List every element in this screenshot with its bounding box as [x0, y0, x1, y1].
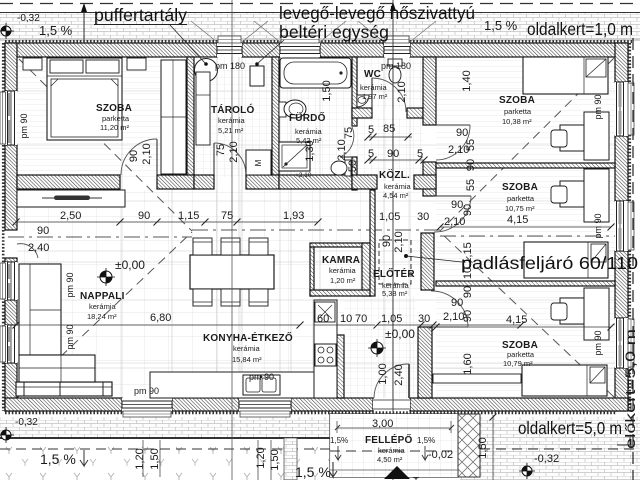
floor ceramic furdo: [279, 57, 352, 177]
interior wall tarolo/furdo: [272, 57, 279, 177]
kitchen counter east: [314, 300, 337, 398]
svg-text:pm 90: pm 90: [19, 113, 29, 138]
kamra wall top: [310, 243, 371, 247]
nightstand left: [23, 58, 42, 70]
wall right segment 4: [615, 368, 628, 411]
svg-text:1,20: 1,20: [134, 448, 146, 469]
floor ceramic tarolo: [194, 57, 272, 177]
svg-text:11,20 m²: 11,20 m²: [100, 123, 130, 132]
svg-text:KÖZL.: KÖZL.: [379, 168, 410, 181]
floor ceramic wc: [357, 57, 423, 108]
interior wall szoba1/tarolo: [187, 57, 194, 177]
svg-text:1,5%: 1,5%: [417, 436, 435, 445]
svg-text:+2,10: +2,10: [295, 172, 312, 179]
svg-text:SZOBA: SZOBA: [502, 182, 538, 193]
svg-text:-0,32: -0,32: [15, 417, 38, 428]
svg-text:oldalkert=5,0 m: oldalkert=5,0 m: [518, 418, 622, 438]
svg-text:60: 60: [317, 313, 329, 325]
svg-text:oldalkert=1,0 m: oldalkert=1,0 m: [527, 19, 633, 39]
wall tarolo bottom left: [194, 175, 214, 189]
svg-text:2,10: 2,10: [228, 141, 240, 162]
desk return szoba r1: [584, 112, 609, 160]
svg-text:pm 90: pm 90: [65, 272, 75, 297]
svg-text:pm 90: pm 90: [65, 324, 75, 349]
window szoba r3 pm90: [615, 318, 628, 368]
interior wall wc-kozl/szoba r1 upper: [423, 57, 436, 125]
svg-text:90: 90: [462, 286, 474, 298]
svg-text:18,24 m²: 18,24 m²: [87, 312, 117, 321]
survey marker nappali ±0,00: [100, 271, 112, 283]
wall eloter west: [370, 190, 375, 296]
door szoba r1 leaf: [436, 124, 470, 126]
svg-text:6,80: 6,80: [150, 312, 171, 324]
terrain dashed level line: [0, 448, 640, 450]
svg-text:pm 90: pm 90: [593, 213, 603, 238]
roof hip diagonal top-right: [440, 58, 614, 231]
svg-text:padlásfeljáró 60/110: padlásfeljáró 60/110: [461, 253, 638, 273]
window tarolo pm180: [217, 43, 242, 57]
survey marker eloter: [371, 342, 383, 354]
front door threshold: [373, 399, 410, 410]
svg-text:parketta: parketta: [102, 114, 130, 123]
wall top segment 4: [410, 43, 628, 57]
svg-text:10,75 m²: 10,75 m²: [505, 204, 535, 213]
site walkway top band: [0, 12, 640, 40]
toilet furdo: [345, 160, 351, 176]
fellepo porch outline: [330, 414, 458, 477]
wall right segment 3: [615, 251, 628, 318]
svg-text:70: 70: [355, 313, 367, 325]
wall tarolo bottom right: [246, 175, 279, 189]
svg-text:pm 90: pm 90: [249, 372, 274, 382]
level dashed line across porch: [330, 450, 458, 452]
svg-text:1,00: 1,00: [377, 363, 389, 384]
svg-text:90: 90: [387, 148, 399, 160]
svg-text:parketta: parketta: [504, 107, 532, 116]
window szoba1 pm90: [5, 91, 17, 145]
svg-text:1,50: 1,50: [321, 80, 333, 101]
insulation dotted strip left: [2, 43, 5, 411]
wall kozl bottom right corner: [414, 175, 436, 189]
svg-text:KONYHA-ÉTKEZŐ: KONYHA-ÉTKEZŐ: [203, 331, 293, 344]
shower furdo: [279, 142, 310, 171]
survey marker top left: [1, 26, 11, 36]
bed szoba r3: [522, 365, 607, 396]
svg-text:4,15: 4,15: [507, 214, 528, 226]
wall szoba1-door east stub: [157, 175, 194, 189]
door szoba r1 arc: [436, 125, 470, 160]
sideboard nappali: [17, 190, 125, 207]
svg-text:90: 90: [138, 210, 150, 222]
wall right segment 2: [615, 136, 628, 201]
svg-text:KAMRA: KAMRA: [322, 255, 360, 266]
svg-text:1,40: 1,40: [461, 70, 473, 91]
svg-text:M: M: [254, 159, 263, 166]
wall bottom segment 4: [410, 398, 628, 411]
door tarolo leaf: [213, 143, 215, 175]
svg-text:FELLÉPŐ: FELLÉPŐ: [365, 433, 413, 446]
section line A-A vertical: [392, 0, 394, 480]
door wc arc: [372, 78, 406, 112]
window furdo pm180: [280, 43, 320, 57]
brick path column: [284, 438, 297, 480]
svg-text:beltéri egység: beltéri egység: [279, 22, 389, 42]
svg-text:15,84 m²: 15,84 m²: [232, 355, 262, 364]
svg-text:1,5 %: 1,5 %: [484, 18, 518, 33]
wall left segment 5: [5, 363, 17, 411]
interior wall furdo/wc upper: [352, 57, 357, 126]
desk return szoba r3: [584, 288, 609, 340]
floor parquet szoba1: [17, 57, 187, 177]
dining chairs bottom: [193, 289, 212, 306]
svg-text:4,15: 4,15: [506, 314, 527, 326]
wall szoba r1/r2: [436, 163, 615, 168]
survey marker bottom left: [1, 430, 11, 440]
property line right dashed: [632, 38, 634, 480]
svg-text:2,10: 2,10: [141, 143, 153, 164]
svg-text:10,79 m²: 10,79 m²: [503, 359, 533, 368]
wall right segment 1: [615, 43, 628, 82]
svg-text:3,00: 3,00: [372, 418, 393, 430]
svg-text:1,50: 1,50: [477, 437, 489, 458]
wardrobe szoba1: [161, 60, 186, 174]
kamra wall bottom: [310, 290, 371, 296]
svg-text:1,5 %: 1,5 %: [40, 451, 76, 467]
svg-text:-0,32: -0,32: [534, 453, 559, 465]
svg-text:1,50: 1,50: [149, 448, 161, 469]
svg-text:2,40: 2,40: [393, 364, 405, 385]
svg-text:85: 85: [383, 123, 395, 135]
door szoba r2 leaf: [434, 195, 471, 197]
slope arrow top: [83, 4, 85, 40]
svg-text:2,10: 2,10: [336, 139, 348, 160]
fridge: [315, 302, 335, 322]
porch dim 3,00 line: [337, 427, 451, 429]
svg-text:SZOBA: SZOBA: [96, 103, 132, 114]
wall top segment 1: [5, 43, 217, 57]
wall left segment 3: [5, 258, 17, 262]
dim wc door 5 85: [368, 136, 412, 138]
svg-text:90: 90: [381, 235, 393, 247]
door szoba1 arc: [121, 139, 157, 175]
svg-text:TÁROLÓ: TÁROLÓ: [211, 103, 254, 116]
dim 6,80 row: [16, 324, 300, 326]
wall kozl bottom left: [352, 175, 377, 189]
svg-text:10,38 m²: 10,38 m²: [502, 117, 532, 126]
svg-text:1,60: 1,60: [462, 353, 474, 374]
svg-text:kerámia: kerámia: [329, 266, 357, 275]
svg-text:90: 90: [456, 127, 468, 139]
heat pump indoor unit: [250, 66, 264, 86]
floor ceramic nappali konyha: [17, 190, 420, 398]
wall left segment 2: [5, 145, 17, 230]
svg-text:puffertartály: puffertartály: [94, 5, 187, 25]
wall bottom segment 2: [172, 398, 239, 411]
svg-text:1,97 m²: 1,97 m²: [362, 92, 388, 101]
svg-text:kerámia: kerámia: [89, 302, 117, 311]
svg-text:2,10: 2,10: [448, 144, 469, 156]
svg-text:30: 30: [417, 211, 429, 223]
bed szoba r2: [524, 242, 608, 278]
svg-text:2,10: 2,10: [393, 231, 405, 252]
roof hip diagonal bottom-left: [17, 232, 192, 398]
entrance level triangle: [384, 466, 410, 479]
porch step edge line: [330, 469, 458, 471]
door szoba r3 arc: [431, 291, 468, 327]
tarolo shelf: [196, 72, 210, 145]
nappali south glazing frame: [16, 382, 112, 396]
floor ceramic eloter: [344, 296, 417, 398]
dining chairs top: [193, 238, 212, 255]
svg-text:5: 5: [417, 148, 423, 160]
door szoba r3 leaf: [431, 326, 468, 328]
outer sills top windows: [218, 36, 241, 43]
svg-text:pm 90: pm 90: [593, 330, 603, 355]
porch lattice strip: [458, 414, 480, 477]
wall bottom segment 1: [5, 398, 122, 411]
terrain grass bottom left: [0, 440, 332, 480]
svg-text:1,5 %: 1,5 %: [295, 464, 331, 480]
interior wall kozl/szoba r1 lower: [423, 162, 436, 196]
svg-text:1,05: 1,05: [379, 211, 400, 223]
desk return szoba r2: [584, 169, 609, 222]
desk szoba r3: [560, 298, 584, 324]
svg-text:kerámia: kerámia: [233, 344, 261, 353]
kitchen sink: [243, 375, 280, 395]
svg-text:előkert=5,0 m: előkert=5,0 m: [623, 329, 638, 449]
leader puffertartaly: [170, 25, 205, 63]
svg-text:SZOBA: SZOBA: [499, 95, 535, 106]
svg-text:2,50: 2,50: [60, 210, 81, 222]
window nappali 2 pm90: [5, 325, 17, 363]
insulation dotted strip right: [628, 43, 631, 411]
door tarolo arc: [214, 143, 246, 175]
svg-text:parketta: parketta: [507, 194, 535, 203]
insulation dotted strip bottom: [5, 411, 616, 414]
svg-text:±0,00: ±0,00: [115, 258, 145, 272]
svg-text:1,20 m²: 1,20 m²: [330, 276, 356, 285]
stove: [315, 344, 336, 366]
svg-text:levegő-levegő hőszivattyú: levegő-levegő hőszivattyú: [279, 3, 475, 23]
padlasfeljaro dashed hatch rect: [379, 240, 411, 284]
bed szoba1: [47, 58, 122, 140]
floor ceramic kozl: [357, 118, 423, 192]
construction extension lines: [17, 57, 615, 398]
bed szoba r1: [523, 57, 608, 94]
wall left segment 4: [5, 300, 17, 325]
front door arc: [374, 364, 409, 398]
svg-text:pm 90: pm 90: [134, 386, 159, 396]
svg-text:90: 90: [462, 310, 474, 322]
bathtub furdo: [280, 58, 351, 88]
property line top: [0, 3, 640, 5]
wall bottom segment 3: [291, 398, 373, 411]
svg-text:4,54 m²: 4,54 m²: [383, 191, 409, 200]
sofa nappali: [19, 264, 61, 355]
washing machine: [246, 150, 271, 175]
door nappali west arc: [17, 244, 38, 258]
svg-text:5,21 m²: 5,21 m²: [218, 126, 244, 135]
svg-text:75: 75: [343, 127, 355, 139]
svg-text:-0,32: -0,32: [17, 13, 40, 24]
svg-text:4,50 m²: 4,50 m²: [377, 455, 403, 464]
svg-text:50: 50: [347, 160, 359, 172]
wall top segment 2: [242, 43, 280, 57]
kamra wall left: [310, 247, 314, 296]
puffer tank circle tarolo: [195, 59, 218, 82]
site walkway bottom band: [0, 417, 640, 438]
outer sills right windows: [628, 83, 634, 135]
svg-text:parketta: parketta: [507, 350, 535, 359]
insulation dotted strip top: [5, 40, 632, 43]
svg-text:2,10: 2,10: [396, 81, 408, 102]
wall wc bottom right stub: [407, 108, 423, 118]
svg-text:kerámia: kerámia: [384, 182, 412, 191]
section line B-B vertical: [231, 0, 233, 480]
svg-text:55: 55: [465, 179, 477, 191]
kitchen counter south: [150, 372, 337, 398]
svg-text:1,5 %: 1,5 %: [39, 23, 73, 38]
window szoba r2 pm90: [615, 201, 628, 251]
window szoba r1 pm90: [615, 82, 628, 136]
wall left segment 1: [5, 43, 17, 91]
interior wall eloter/szoba r2: [421, 233, 434, 290]
svg-text:1,93: 1,93: [283, 210, 304, 222]
svg-text:pm 180: pm 180: [381, 61, 411, 71]
svg-text:NAPPALI: NAPPALI: [80, 291, 125, 302]
dim row eloter 1,05 30 2,10: [377, 324, 521, 326]
interior wall furdo/kozl lower: [352, 157, 357, 190]
toilet wc: [388, 59, 402, 66]
svg-text:90: 90: [37, 225, 49, 237]
corner basin wc: [357, 95, 369, 107]
door furdo leaf: [340, 156, 352, 158]
svg-text:kerámia: kerámia: [378, 446, 406, 455]
front door leaf: [408, 364, 410, 398]
nightstand right: [127, 58, 146, 70]
cabinet szoba r3: [433, 374, 521, 383]
svg-text:2,40: 2,40: [28, 242, 49, 254]
wall konyha/eloter: [337, 335, 344, 398]
door furdo arc: [340, 127, 354, 157]
survey marker bottom right: [522, 466, 532, 476]
roof hip diagonal top-left: [19, 59, 192, 231]
window terrace door nappali: [122, 398, 172, 411]
svg-text:10: 10: [340, 313, 352, 325]
svg-text:90: 90: [462, 204, 474, 216]
svg-text:1,5%: 1,5%: [330, 436, 348, 445]
floor parquet szoba r3: [436, 286, 615, 398]
svg-text:2,10: 2,10: [444, 216, 465, 228]
wall wc bottom left stub: [352, 108, 372, 118]
svg-text:kerámia: kerámia: [295, 127, 323, 136]
svg-text:kerámia: kerámia: [360, 83, 388, 92]
roof ridge dash-dot line: [192, 229, 440, 231]
section dash-dot line right: [440, 235, 632, 237]
wall szoba r2/r3: [436, 281, 615, 286]
dim kozl 5 90 5: [368, 159, 424, 161]
svg-text:30: 30: [418, 313, 430, 325]
door wc leaf: [371, 78, 373, 112]
desk szoba r1: [560, 125, 584, 151]
leader beltéri egység: [258, 40, 284, 63]
roof hip diagonal bottom-right: [440, 232, 614, 397]
wall szoba1/nappali: [17, 175, 120, 189]
dim 60 10 70 kamra: [314, 324, 375, 326]
svg-text:-0,02: -0,02: [428, 449, 453, 461]
svg-text:90: 90: [128, 150, 140, 162]
svg-text:ELŐTÉR: ELŐTÉR: [373, 267, 415, 280]
outer sills left windows: [0, 92, 6, 144]
section dash-dot line left: [8, 236, 192, 238]
outer sills bottom windows: [123, 411, 171, 417]
interior wall eloter/szoba r3: [418, 327, 432, 398]
svg-text:5: 5: [368, 124, 374, 136]
window nappali 1 pm90: [5, 262, 17, 300]
svg-text:5,38 m²: 5,38 m²: [382, 289, 408, 298]
dining table: [190, 255, 274, 289]
svg-text:1,05: 1,05: [381, 313, 402, 325]
svg-text:pm 180: pm 180: [215, 61, 245, 71]
wall top segment 3: [320, 43, 384, 57]
svg-text:WC: WC: [364, 69, 381, 80]
washbasin furdo: [279, 102, 286, 117]
door szoba r2 arc: [434, 196, 471, 232]
svg-text:1,15: 1,15: [178, 210, 199, 222]
window konyha pm90: [239, 398, 291, 411]
svg-text:±0,00: ±0,00: [385, 327, 415, 341]
svg-text:75: 75: [215, 144, 227, 156]
door szoba1 leaf: [156, 139, 158, 175]
wall furdo bottom: [279, 175, 352, 189]
dimension chain nappali row: [16, 221, 318, 223]
svg-text:1,20: 1,20: [255, 447, 267, 468]
window wc: [384, 43, 410, 57]
svg-text:FÜRDŐ: FÜRDŐ: [289, 111, 326, 124]
svg-text:kerámia: kerámia: [218, 116, 246, 125]
kamra wall right: [362, 243, 371, 296]
svg-text:90: 90: [465, 159, 477, 171]
desk szoba r2: [560, 181, 584, 207]
svg-text:75: 75: [221, 210, 233, 222]
floor parquet szoba r2: [436, 168, 615, 281]
floor parquet szoba r1: [436, 57, 615, 163]
svg-text:5: 5: [368, 148, 374, 160]
svg-text:pm 90: pm 90: [593, 94, 603, 119]
survey marker fellepo: [411, 468, 421, 478]
svg-text:5,42 m²: 5,42 m²: [296, 136, 322, 145]
